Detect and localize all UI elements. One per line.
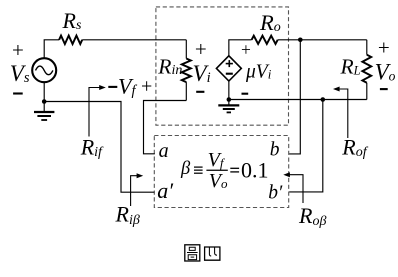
Robeta arrow: [288, 175, 303, 203]
svg-text:+: +: [241, 39, 251, 59]
Vs minus label: [13, 92, 23, 94]
wire: diamond top lead: [229, 40, 252, 56]
ground (source): [43, 102, 45, 112]
svg-text:β: β: [180, 159, 191, 179]
node: source ground junction: [42, 99, 47, 104]
svg-text:+: +: [12, 38, 24, 62]
voltage source Vs: [32, 58, 56, 82]
resistor Rs: [59, 36, 82, 44]
wire: rail down to b': [289, 100, 323, 192]
wire: Rs to Rin top: [82, 39, 186, 41]
amplifier dashed box: [156, 7, 289, 125]
minus inside diamond: [226, 73, 233, 75]
plus inside diamond: [226, 60, 233, 67]
wire: junction down to b: [289, 40, 300, 154]
resistor RL: [366, 40, 368, 55]
svg-text:b′: b′: [268, 182, 283, 203]
Vo minus label: [380, 88, 388, 90]
resistor Ro: [252, 36, 278, 44]
ground (amplifier): [228, 100, 230, 106]
wire: bottom right rail: [229, 99, 367, 101]
Rif arrow: [89, 88, 101, 137]
wire: source top lead to Rs: [44, 40, 59, 59]
caption: figure four (hand-drawn CJK): [185, 245, 200, 261]
wire: source bottom lead: [43, 82, 45, 102]
Rof arrow: [338, 89, 348, 138]
svg-text:+: +: [195, 37, 207, 61]
wire: diamond bottom lead: [228, 81, 230, 100]
dependent source U1 (diamond): [216, 56, 241, 81]
node: b' rail junction: [321, 97, 326, 102]
-Vf+ label: [108, 86, 117, 88]
svg-text:+: +: [141, 75, 152, 97]
svg-text:a: a: [159, 140, 169, 162]
svg-text:μVi: μVi: [245, 61, 272, 82]
svg-text:+: +: [378, 36, 390, 60]
wire: bottom rail from source to a': [44, 102, 154, 193]
feedback network dashed box: [154, 136, 288, 208]
wire: Ro to RL top: [278, 39, 367, 41]
svg-text:a′: a′: [157, 178, 174, 203]
Ribeta arrow: [131, 176, 139, 206]
wire: Rin bottom to a: [144, 101, 187, 154]
minus (source output polarity): [242, 93, 249, 95]
Vi minus label: [196, 91, 204, 93]
node: diamond ground junction: [227, 97, 232, 102]
svg-text:b: b: [270, 140, 280, 161]
resistor Rin: [185, 40, 187, 59]
node: output junction: [298, 38, 303, 43]
svg-text:0.1: 0.1: [241, 158, 269, 183]
